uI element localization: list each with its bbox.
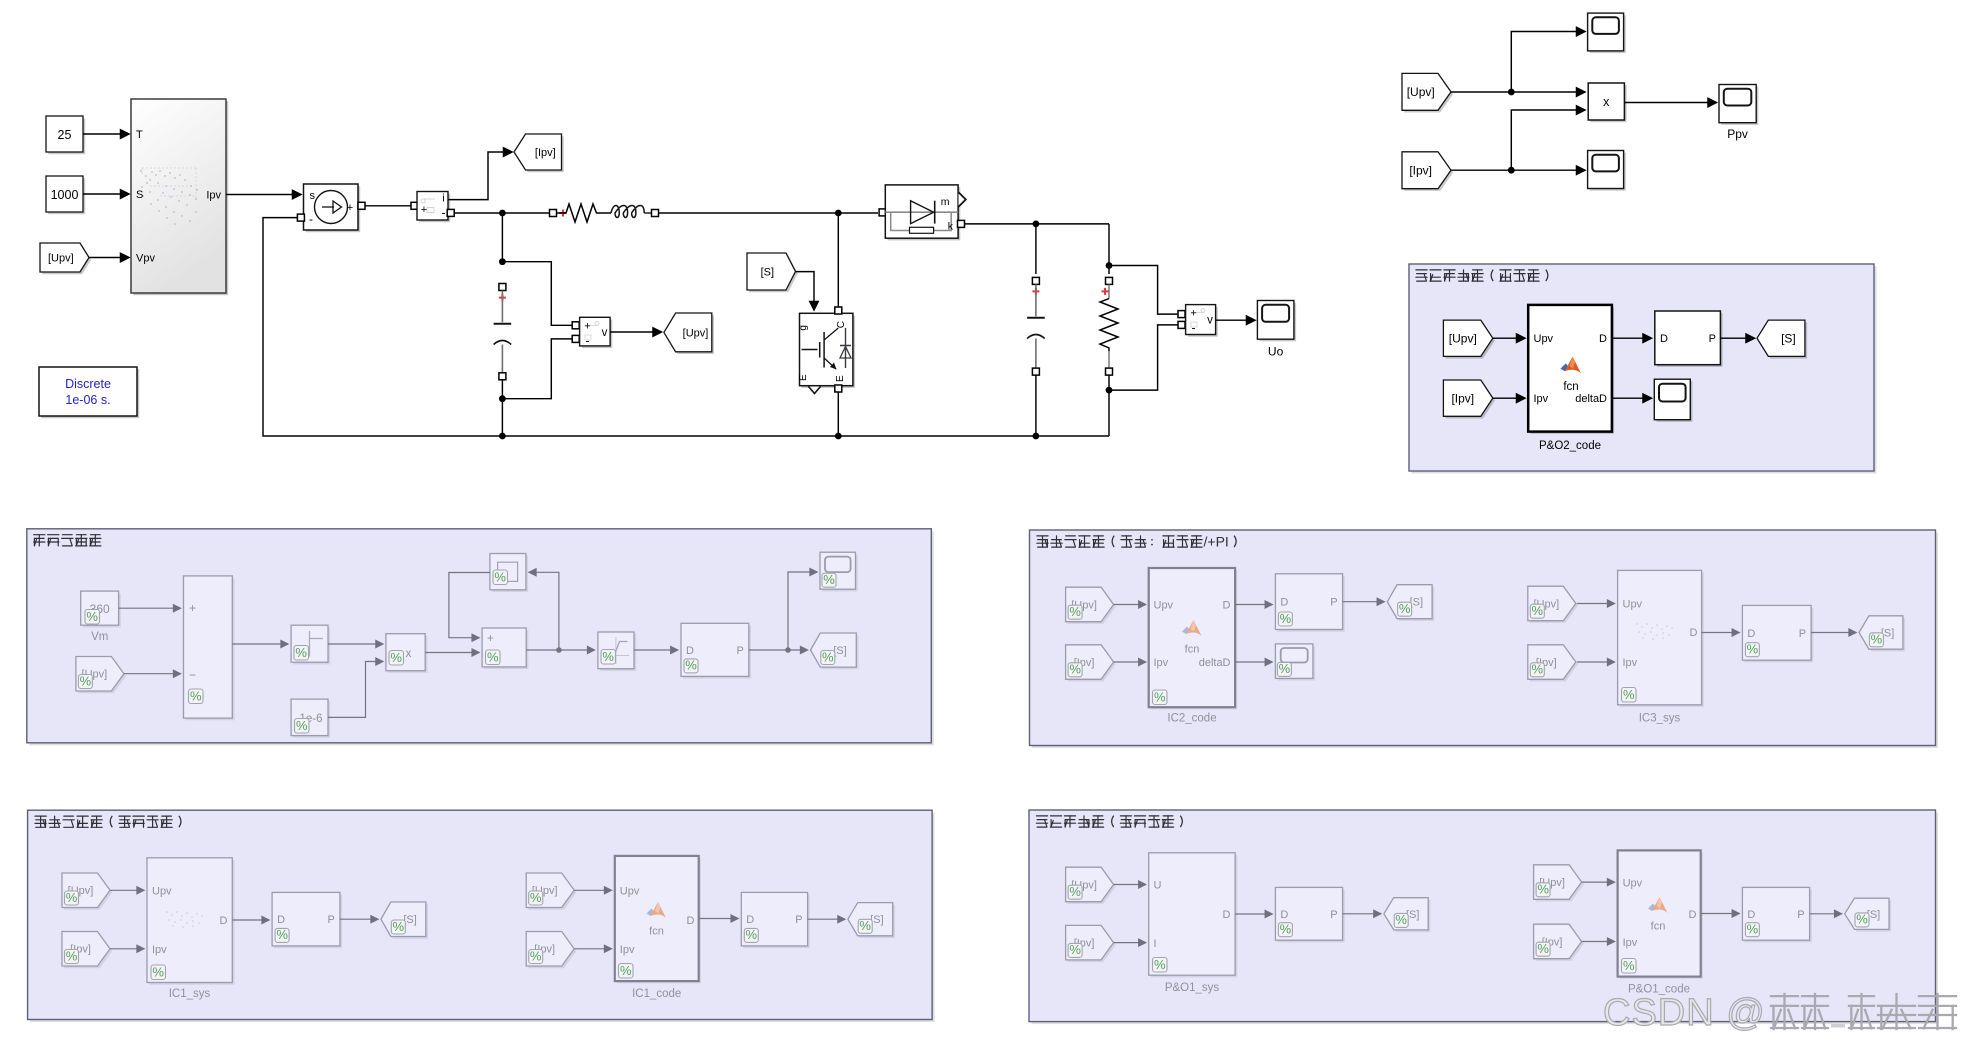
svg-text:%: % xyxy=(1280,922,1292,937)
faded subsystem D P L2a xyxy=(272,892,342,948)
faded From [Ipv] L2b xyxy=(526,932,576,969)
faded From [Upv] R2b xyxy=(1534,865,1584,902)
svg-text:-: - xyxy=(442,206,446,220)
faded wire P to S R1a xyxy=(1343,601,1385,603)
svg-text:P: P xyxy=(1797,909,1804,921)
wire load bottom to bus xyxy=(1108,390,1110,436)
wire [Upv] to PV Vpv input xyxy=(89,257,129,259)
svg-text:IC2_code: IC2_code xyxy=(1167,713,1216,725)
svg-text:D: D xyxy=(687,915,695,927)
node bottom bus input cap xyxy=(499,433,506,440)
svg-text:-: - xyxy=(1192,321,1196,335)
watermark CSDN xyxy=(1603,992,1956,1034)
svg-text:Vpv: Vpv xyxy=(136,253,155,265)
svg-text:D: D xyxy=(686,645,694,657)
Goto tag [Upv] xyxy=(664,313,714,354)
node cap top branch xyxy=(499,258,506,265)
wire [Upv] to product xyxy=(1451,91,1585,93)
faded constant 1e-6 xyxy=(291,699,330,738)
svg-text:D: D xyxy=(1660,333,1668,345)
scope deltaD xyxy=(1654,379,1692,422)
faded scope L1 xyxy=(820,552,858,591)
From tag [Upv] power calc xyxy=(1402,73,1453,112)
faded subsystem IC1_sys xyxy=(147,858,235,1000)
svg-text:deltaD: deltaD xyxy=(1575,393,1607,405)
svg-text:Discrete: Discrete xyxy=(65,377,111,391)
svg-text:P: P xyxy=(1709,333,1716,345)
svg-text:%: % xyxy=(685,658,697,673)
faded wire IC1c D to DP xyxy=(699,918,738,920)
svg-text:Ipv: Ipv xyxy=(206,190,221,202)
faded wire Upv to IC1s xyxy=(110,889,144,891)
faded From [Ipv] R1a xyxy=(1066,645,1116,682)
svg-text:%: % xyxy=(487,649,499,664)
svg-text:g: g xyxy=(798,325,809,331)
faded wire IC1s D to DP xyxy=(232,919,269,921)
faded From [Upv] L1 xyxy=(76,657,126,694)
faded wire node up to memory input xyxy=(529,572,559,650)
faded wire Upv to IC1c xyxy=(574,889,611,891)
svg-text:%: % xyxy=(1747,642,1759,657)
svg-text:fcn: fcn xyxy=(649,926,664,938)
svg-text:C: C xyxy=(836,321,847,328)
faded wire P to S with node xyxy=(749,647,808,653)
svg-text:/+PI: /+PI xyxy=(1204,534,1229,550)
svg-text:D: D xyxy=(1747,909,1755,921)
faded subsystem D P R2b xyxy=(1742,887,1811,942)
wire cap top branch to Vmeas + xyxy=(502,262,572,326)
svg-text:fcn: fcn xyxy=(1185,644,1200,656)
controlled current source block xyxy=(304,184,366,232)
svg-text:%: % xyxy=(1069,662,1081,677)
faded wire node to scope L1 xyxy=(788,572,817,650)
From tag [Ipv] in P&O2 box xyxy=(1443,380,1495,419)
faded wire product to sum2 xyxy=(425,652,479,654)
scope Uo xyxy=(1257,301,1296,359)
svg-text:%: % xyxy=(1279,661,1291,676)
wire deltaD to scope xyxy=(1612,397,1652,399)
faded subsystem D P R2a xyxy=(1275,887,1344,942)
svg-text:Vm: Vm xyxy=(91,631,108,643)
faded wire Ipv to PO1s xyxy=(1114,942,1146,944)
svg-text:%: % xyxy=(296,718,308,733)
node cap bottom branch xyxy=(499,395,506,402)
faded subsystem D P R1a xyxy=(1275,574,1344,632)
svg-text:[Upv]: [Upv] xyxy=(48,253,74,265)
current measurement block xyxy=(417,192,450,223)
svg-text:fcn: fcn xyxy=(1651,921,1666,933)
svg-text:P&O2_code: P&O2_code xyxy=(1539,440,1601,452)
svg-text:%: % xyxy=(1069,884,1081,899)
faded wire Upv to IC2 xyxy=(1114,604,1146,606)
svg-text:%: % xyxy=(1154,957,1166,972)
node IGBT bottom bus xyxy=(835,433,842,440)
node output cap branch xyxy=(1033,221,1040,228)
faded Goto [S] L2b xyxy=(848,903,895,938)
svg-text:+: + xyxy=(421,204,427,216)
svg-text:%: % xyxy=(295,645,307,660)
svg-text:-: - xyxy=(586,334,590,348)
faded From [Ipv] R1b xyxy=(1528,645,1578,682)
svg-text:%: % xyxy=(1069,942,1081,957)
faded wire sign to product xyxy=(328,643,383,645)
wire D to subsystem xyxy=(1612,337,1652,339)
svg-text:%: % xyxy=(822,649,834,664)
svg-text:%: % xyxy=(1532,662,1544,677)
faded From [Upv] R2a xyxy=(1066,867,1116,904)
node main bus IGBT branch xyxy=(835,210,842,217)
wire diode k to output section xyxy=(965,223,1110,225)
node output cap bottom bus xyxy=(1033,433,1040,440)
From tag [Upv] to Vpv xyxy=(40,243,91,274)
wire 1000 to PV S input xyxy=(83,193,129,195)
svg-text:%: % xyxy=(1871,632,1883,647)
faded wire IC3 D to DP xyxy=(1702,632,1740,634)
wire i out to Goto [Ipv] xyxy=(448,152,512,200)
wire Ipv branch to product xyxy=(1511,110,1585,170)
faded Goto [S] L1 xyxy=(811,633,859,669)
faded From [Ipv] L2a xyxy=(62,932,112,969)
svg-text:%: % xyxy=(1537,882,1549,897)
faded wire Upv to sum minus xyxy=(124,673,181,675)
svg-text:Upv: Upv xyxy=(1154,600,1174,612)
faded wire PO1c D to DP xyxy=(1701,913,1740,915)
faded wire P to S L2b xyxy=(808,918,845,920)
faded MATLAB function P&O1_code xyxy=(1618,850,1703,995)
svg-text:%: % xyxy=(1399,601,1411,616)
svg-text:+: + xyxy=(584,321,590,333)
svg-text:Ppv: Ppv xyxy=(1727,127,1748,141)
svg-text:Upv: Upv xyxy=(1534,333,1554,345)
faded From [Ipv] R2a xyxy=(1066,925,1116,962)
svg-text:v: v xyxy=(1207,314,1213,326)
svg-text:deltaD: deltaD xyxy=(1199,657,1231,669)
wire bus down to cap node xyxy=(501,213,503,262)
faded wire PO1s D to DP xyxy=(1235,913,1272,915)
Goto tag [Ipv] xyxy=(514,134,564,172)
area box incremental conductance improved xyxy=(1030,530,1939,748)
svg-text:%: % xyxy=(1532,603,1544,618)
faded Goto [S] R1a xyxy=(1387,585,1434,621)
svg-text:1e-06 s.: 1e-06 s. xyxy=(65,393,110,407)
svg-text:D: D xyxy=(1689,909,1697,921)
constant block S=1000 xyxy=(46,176,85,214)
area box P&O variable step xyxy=(1409,264,1877,474)
svg-text:CSDN @: CSDN @ xyxy=(1603,992,1766,1034)
wire load bottom branch to Vmeas2 - xyxy=(1109,325,1178,390)
powergui Discrete block xyxy=(39,367,139,418)
PV array subsystem block xyxy=(131,99,228,295)
svg-text:%: % xyxy=(1856,912,1868,927)
svg-text:D: D xyxy=(1223,600,1231,612)
svg-text:D: D xyxy=(1223,909,1231,921)
svg-text:D: D xyxy=(277,914,285,926)
svg-text:D: D xyxy=(746,914,754,926)
svg-text:D: D xyxy=(1747,628,1755,640)
wire PV Ipv to source s xyxy=(226,194,301,196)
svg-text:%: % xyxy=(823,572,835,587)
faded From [Upv] R1b xyxy=(1528,586,1578,623)
svg-text:%: % xyxy=(152,964,164,979)
scope Upv xyxy=(1588,13,1626,53)
wire Upv branch to scope1 xyxy=(1511,32,1585,93)
svg-text:%: % xyxy=(80,673,92,688)
wire source + to current measure xyxy=(365,202,418,209)
svg-text:[Ipv]: [Ipv] xyxy=(535,147,556,159)
svg-text:fcn: fcn xyxy=(1563,381,1578,393)
faded From [Upv] R1a xyxy=(1066,587,1116,624)
faded saturation block xyxy=(598,632,636,671)
wire bus to IGBT C xyxy=(837,213,839,307)
svg-text:[S]: [S] xyxy=(833,645,846,657)
wire source - feedback to bottom bus xyxy=(263,214,1109,436)
svg-text:25: 25 xyxy=(58,128,72,142)
svg-text:x: x xyxy=(1603,95,1610,109)
svg-text:Upv: Upv xyxy=(620,886,640,898)
svg-text:%: % xyxy=(620,963,632,978)
svg-text:%: % xyxy=(1623,687,1635,702)
wire Vmeas to Goto [Upv] xyxy=(610,331,661,333)
svg-text:%: % xyxy=(1623,958,1635,973)
svg-text:%: % xyxy=(390,650,402,665)
faded wire Upv to IC3 xyxy=(1577,603,1615,605)
svg-text:Ipv: Ipv xyxy=(152,944,167,956)
svg-text:%: % xyxy=(393,919,405,934)
From tag [Upv] in P&O2 box xyxy=(1443,320,1495,359)
wire [Ipv] to P&O2_code Ipv xyxy=(1493,397,1525,399)
svg-text:%: % xyxy=(494,569,506,584)
product block x xyxy=(1588,83,1626,122)
faded MATLAB function IC1_code xyxy=(615,856,701,1000)
IGBT block xyxy=(798,307,855,394)
faded subsystem D P L2b xyxy=(741,892,810,948)
svg-text:[S]: [S] xyxy=(1781,332,1796,346)
svg-text:%: % xyxy=(530,948,542,963)
input capacitor C1 xyxy=(494,284,512,380)
svg-text:IC1_code: IC1_code xyxy=(632,988,681,1000)
faded wire Upv to PO1c xyxy=(1582,881,1615,883)
svg-text:%: % xyxy=(1069,604,1081,619)
svg-text:P: P xyxy=(736,645,743,657)
svg-text:x: x xyxy=(406,648,412,660)
svg-text:%: % xyxy=(66,890,78,905)
load resistor R xyxy=(1100,266,1118,391)
faded wire P to S R1b xyxy=(1811,632,1856,634)
wire cap node to bottom bus xyxy=(501,399,503,436)
faded wire Ipv to PO1c xyxy=(1582,941,1615,943)
faded wire saturation to DP L1 xyxy=(634,649,678,651)
faded wire Upv to PO1s xyxy=(1114,884,1146,886)
svg-text:%: % xyxy=(1747,922,1759,937)
svg-text:I: I xyxy=(1154,938,1157,950)
svg-text:D: D xyxy=(220,915,228,927)
From tag [S] xyxy=(747,253,798,292)
faded constant Vm=360 xyxy=(81,591,121,643)
svg-text:P&O1_sys: P&O1_sys xyxy=(1165,982,1220,994)
node Upv branch xyxy=(1508,89,1515,96)
faded sum2 block L1 xyxy=(482,628,528,669)
faded wire Vm to sum xyxy=(119,607,181,609)
faded sign block xyxy=(291,625,330,664)
faded scope R1a xyxy=(1275,644,1315,681)
faded Goto [S] R1b xyxy=(1859,616,1905,652)
wire product to Ppv scope xyxy=(1624,102,1716,104)
faded wire memory loop to sum2 in1 xyxy=(449,573,490,638)
svg-text:%: % xyxy=(86,609,98,624)
faded wire sum2 to saturation with node xyxy=(526,647,594,653)
voltage measurement block Upv xyxy=(572,317,612,348)
svg-text:Ipv: Ipv xyxy=(1623,657,1638,669)
red plus series R xyxy=(560,210,567,217)
svg-text:+: + xyxy=(1190,308,1196,320)
svg-text:+: + xyxy=(487,633,494,645)
faded MATLAB function IC2_code xyxy=(1149,568,1238,725)
area box P&O fixed step xyxy=(1029,810,1938,1024)
faded product block L1 xyxy=(386,634,428,673)
faded wire Ipv to IC1s xyxy=(110,948,144,950)
node load top branch xyxy=(1106,262,1113,269)
svg-text:m: m xyxy=(941,196,950,208)
svg-text:T: T xyxy=(136,129,143,141)
wire inductor to diode xyxy=(659,209,887,216)
faded wire 1e-6 to product xyxy=(328,662,383,718)
output capacitor C2 xyxy=(1027,224,1045,436)
faded From [Upv] L2a xyxy=(62,873,112,910)
faded subsystem P&O1_sys xyxy=(1149,853,1238,994)
svg-text:%: % xyxy=(1395,912,1407,927)
svg-text:%: % xyxy=(1537,941,1549,956)
svg-text:%: % xyxy=(746,927,758,942)
svg-text:%: % xyxy=(1280,611,1292,626)
svg-text:P: P xyxy=(1330,597,1337,609)
svg-text:D: D xyxy=(1280,597,1288,609)
wire [Ipv] to scope3 xyxy=(1451,169,1585,171)
node Ipv branch xyxy=(1508,167,1515,174)
wire cap bottom branch to Vmeas - xyxy=(502,339,572,399)
svg-text:[S]: [S] xyxy=(761,267,774,279)
svg-text:[Upv]: [Upv] xyxy=(683,327,709,339)
wire 25 to PV T input xyxy=(83,133,129,135)
wire Vmeas2 to scope Uo xyxy=(1216,319,1255,321)
svg-text:Ipv: Ipv xyxy=(1154,657,1169,669)
svg-text:%: % xyxy=(276,927,288,942)
svg-text:E: E xyxy=(835,375,846,382)
wire IGBT E to bottom bus xyxy=(837,392,839,436)
svg-text:D: D xyxy=(1280,909,1288,921)
faded wire IC2 D to DP xyxy=(1235,604,1272,606)
faded Goto [S] L2a xyxy=(381,902,428,939)
svg-text:[Ipv]: [Ipv] xyxy=(1451,392,1474,406)
faded wire Ipv to IC1c xyxy=(574,948,611,950)
wire [Upv] to P&O2_code Upv xyxy=(1493,337,1525,339)
faded subsystem D P L1 xyxy=(681,623,751,678)
faded Goto [S] R2a xyxy=(1384,898,1430,932)
diode block xyxy=(885,185,966,241)
faded sum block L1 xyxy=(184,576,235,720)
faded wire Ipv to IC2 xyxy=(1114,661,1146,663)
svg-text:Ipv: Ipv xyxy=(620,944,635,956)
scope Ppv xyxy=(1719,85,1758,142)
area box constant voltage method xyxy=(27,529,934,746)
faded Goto [S] R2b xyxy=(1845,898,1892,931)
wire P to Goto [S] xyxy=(1720,337,1754,339)
faded wire sum to sign xyxy=(232,643,288,645)
svg-text:%: % xyxy=(1154,689,1166,704)
faded From [Upv] L2b xyxy=(526,873,576,910)
svg-text:Upv: Upv xyxy=(1623,878,1643,890)
svg-text:IC1_sys: IC1_sys xyxy=(169,988,211,1000)
svg-text:Upv: Upv xyxy=(1623,599,1643,611)
faded wire P to S R2b xyxy=(1810,913,1842,915)
node on main bus at input cap xyxy=(499,210,506,217)
svg-text:Ipv: Ipv xyxy=(1623,937,1638,949)
svg-text:Ipv: Ipv xyxy=(1534,393,1549,405)
Goto tag [S] in P&O2 box xyxy=(1757,320,1807,359)
faded wire P to S L2a xyxy=(340,918,378,920)
MATLAB function block P&O2_code xyxy=(1528,305,1614,452)
svg-text:P: P xyxy=(1330,909,1337,921)
svg-text:U: U xyxy=(1154,880,1162,892)
faded wire deltaD to scope R1a xyxy=(1235,661,1272,663)
svg-text:−: − xyxy=(189,668,196,682)
svg-text:S: S xyxy=(136,189,143,201)
scope Ipv xyxy=(1588,151,1626,191)
wire to load resistor xyxy=(1108,224,1110,266)
wire [S] to IGBT gate xyxy=(796,272,815,310)
area box incremental conductance fixed xyxy=(28,810,935,1022)
svg-text:[Upv]: [Upv] xyxy=(1407,85,1435,99)
faded wire P to S R2a xyxy=(1343,913,1381,915)
svg-text:E: E xyxy=(798,374,809,381)
svg-text:%: % xyxy=(66,948,78,963)
svg-text:%: % xyxy=(530,890,542,905)
From tag [Ipv] power calc xyxy=(1402,152,1453,191)
faded memory block L1 xyxy=(490,554,528,593)
svg-text:[Upv]: [Upv] xyxy=(1449,332,1477,346)
wire cap bottom to node xyxy=(501,380,503,399)
svg-text:[Ipv]: [Ipv] xyxy=(1409,164,1432,178)
svg-text:%: % xyxy=(859,918,871,933)
voltage measurement block Uo xyxy=(1178,305,1218,337)
svg-text:D: D xyxy=(1599,333,1607,345)
svg-text:Upv: Upv xyxy=(152,886,172,898)
svg-text:i: i xyxy=(442,193,444,205)
series inductor xyxy=(611,206,659,218)
svg-text:P: P xyxy=(795,914,802,926)
faded subsystem D P R1b xyxy=(1742,605,1813,662)
svg-text:k: k xyxy=(948,221,954,233)
svg-text:-: - xyxy=(309,212,313,226)
svg-text:s: s xyxy=(310,190,316,202)
subsystem D to P xyxy=(1655,311,1723,367)
svg-text:D: D xyxy=(1690,627,1698,639)
svg-text:+: + xyxy=(347,202,353,214)
constant block T=25 xyxy=(46,116,85,154)
series resistor xyxy=(557,204,612,222)
faded wire Ipv to IC3 xyxy=(1577,661,1615,663)
svg-text:1000: 1000 xyxy=(51,188,79,202)
svg-text:+: + xyxy=(189,601,196,615)
svg-text:P: P xyxy=(1799,628,1806,640)
svg-text:v: v xyxy=(602,327,608,339)
svg-text:%: % xyxy=(602,649,614,664)
svg-text:Uo: Uo xyxy=(1268,345,1284,359)
node load bottom branch xyxy=(1106,387,1113,394)
wire measure - to RL branch xyxy=(447,209,556,216)
svg-text:%: % xyxy=(190,688,202,703)
faded From [Ipv] R2b xyxy=(1534,924,1584,961)
wire load top branch to Vmeas2 + xyxy=(1109,266,1178,315)
